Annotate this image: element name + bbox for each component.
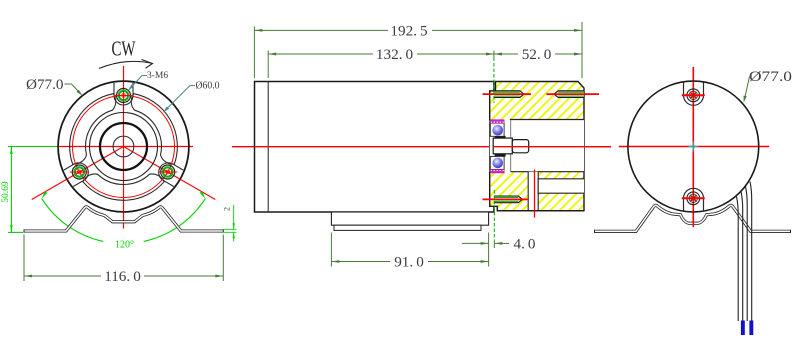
bearing inner race blocks (495, 136, 506, 139)
small center circle (113, 136, 134, 157)
screw top M6 (117, 89, 131, 103)
red centerline of bottom vertical hole (534, 170, 536, 218)
middle view: side section of motor (232, 22, 611, 271)
dimension 4.0 (493, 190, 495, 240)
front end cap seam (267, 82, 269, 213)
rotor shaft through bearings (493, 138, 512, 154)
dimension 50.69 vertical (10, 147, 12, 233)
red horizontal centerline (58, 146, 194, 148)
outer circle D77 front (58, 81, 189, 212)
output shaft stub (512, 140, 528, 153)
rear screw top (687, 89, 700, 102)
dimension 52.0 (494, 53, 518, 55)
svg-text:120°: 120° (115, 240, 134, 251)
red vertical centerline (123, 66, 125, 229)
base plate under body (331, 212, 488, 225)
svg-text:CW: CW (112, 37, 136, 61)
red horizontal centerline rear (619, 146, 769, 148)
120 degree arc dimension (42, 199, 104, 242)
rear screw pocket top (684, 82, 704, 105)
tapped hole top-left (494, 91, 524, 98)
svg-text:4.0: 4.0 (514, 235, 536, 252)
dimension 192.5 (254, 29, 388, 31)
red diagonal centerline to lower-left screw (32, 147, 124, 200)
left view of gear motor: front face (1, 37, 237, 286)
wire blue tip 1 (741, 321, 745, 336)
mounting bracket rear view (595, 205, 791, 231)
svg-text:192.5: 192.5 (390, 22, 427, 39)
face plate kidney windows (70, 94, 116, 164)
screw pockets (114, 83, 133, 105)
bottom vertical screw hole (528, 172, 538, 211)
red diagonal centerline to lower-right screw (124, 147, 216, 200)
svg-text:132.0: 132.0 (376, 46, 414, 63)
svg-text:Ø60.0: Ø60.0 (196, 81, 220, 92)
right view: rear of motor (595, 67, 793, 335)
svg-text:3-M6: 3-M6 (147, 71, 168, 81)
red vertical centerline rear (692, 67, 694, 227)
thick bearing circle (100, 123, 147, 170)
screw lower-left M6 (72, 165, 86, 179)
lead wires (737, 197, 739, 322)
main red axis centerline (232, 146, 611, 148)
dimension 132.0 (268, 53, 373, 55)
ball bearing top (490, 123, 504, 136)
screw lower-right M6 (161, 165, 175, 179)
svg-text:Ø77.0: Ø77.0 (26, 77, 64, 93)
svg-text:50.69: 50.69 (1, 181, 11, 203)
svg-text:116.0: 116.0 (104, 268, 141, 285)
extension lines for top dimensions (253, 27, 255, 79)
svg-text:52.0: 52.0 (522, 46, 552, 63)
tapped hole bottom-left (494, 196, 523, 203)
dimension 91.0 (330, 233, 332, 267)
boss circle (90, 113, 158, 181)
bearing bore region (490, 120, 511, 172)
svg-text:Ø77.0: Ø77.0 (749, 69, 792, 85)
motor body shell (255, 82, 494, 213)
rear screw bottom (687, 192, 700, 205)
dimension 2 sheet thickness (223, 228, 237, 230)
rear screw pocket bottom (684, 188, 704, 211)
right side slot recess (538, 179, 584, 193)
ball bearing bottom (490, 156, 504, 169)
extension line at bracket foot bottom (8, 231, 23, 233)
dimension 116.0 (23, 235, 25, 282)
mounting bracket front view (24, 207, 223, 231)
CW curved arrow (99, 61, 153, 68)
rear housing hatched section (490, 82, 584, 211)
red bolt circle D60 (73, 96, 175, 198)
extension line at center height (bright green) (8, 146, 58, 148)
outer circle rear D77 (628, 81, 759, 212)
centerlines redrawn inside circle (123, 82, 125, 213)
teal center mark (688, 146, 698, 148)
svg-text:2: 2 (223, 207, 232, 211)
tapped hole top-right (554, 91, 584, 98)
wire blue tip 2 (749, 321, 753, 336)
shaft cavity recess (511, 120, 585, 172)
svg-text:91.0: 91.0 (394, 254, 424, 271)
